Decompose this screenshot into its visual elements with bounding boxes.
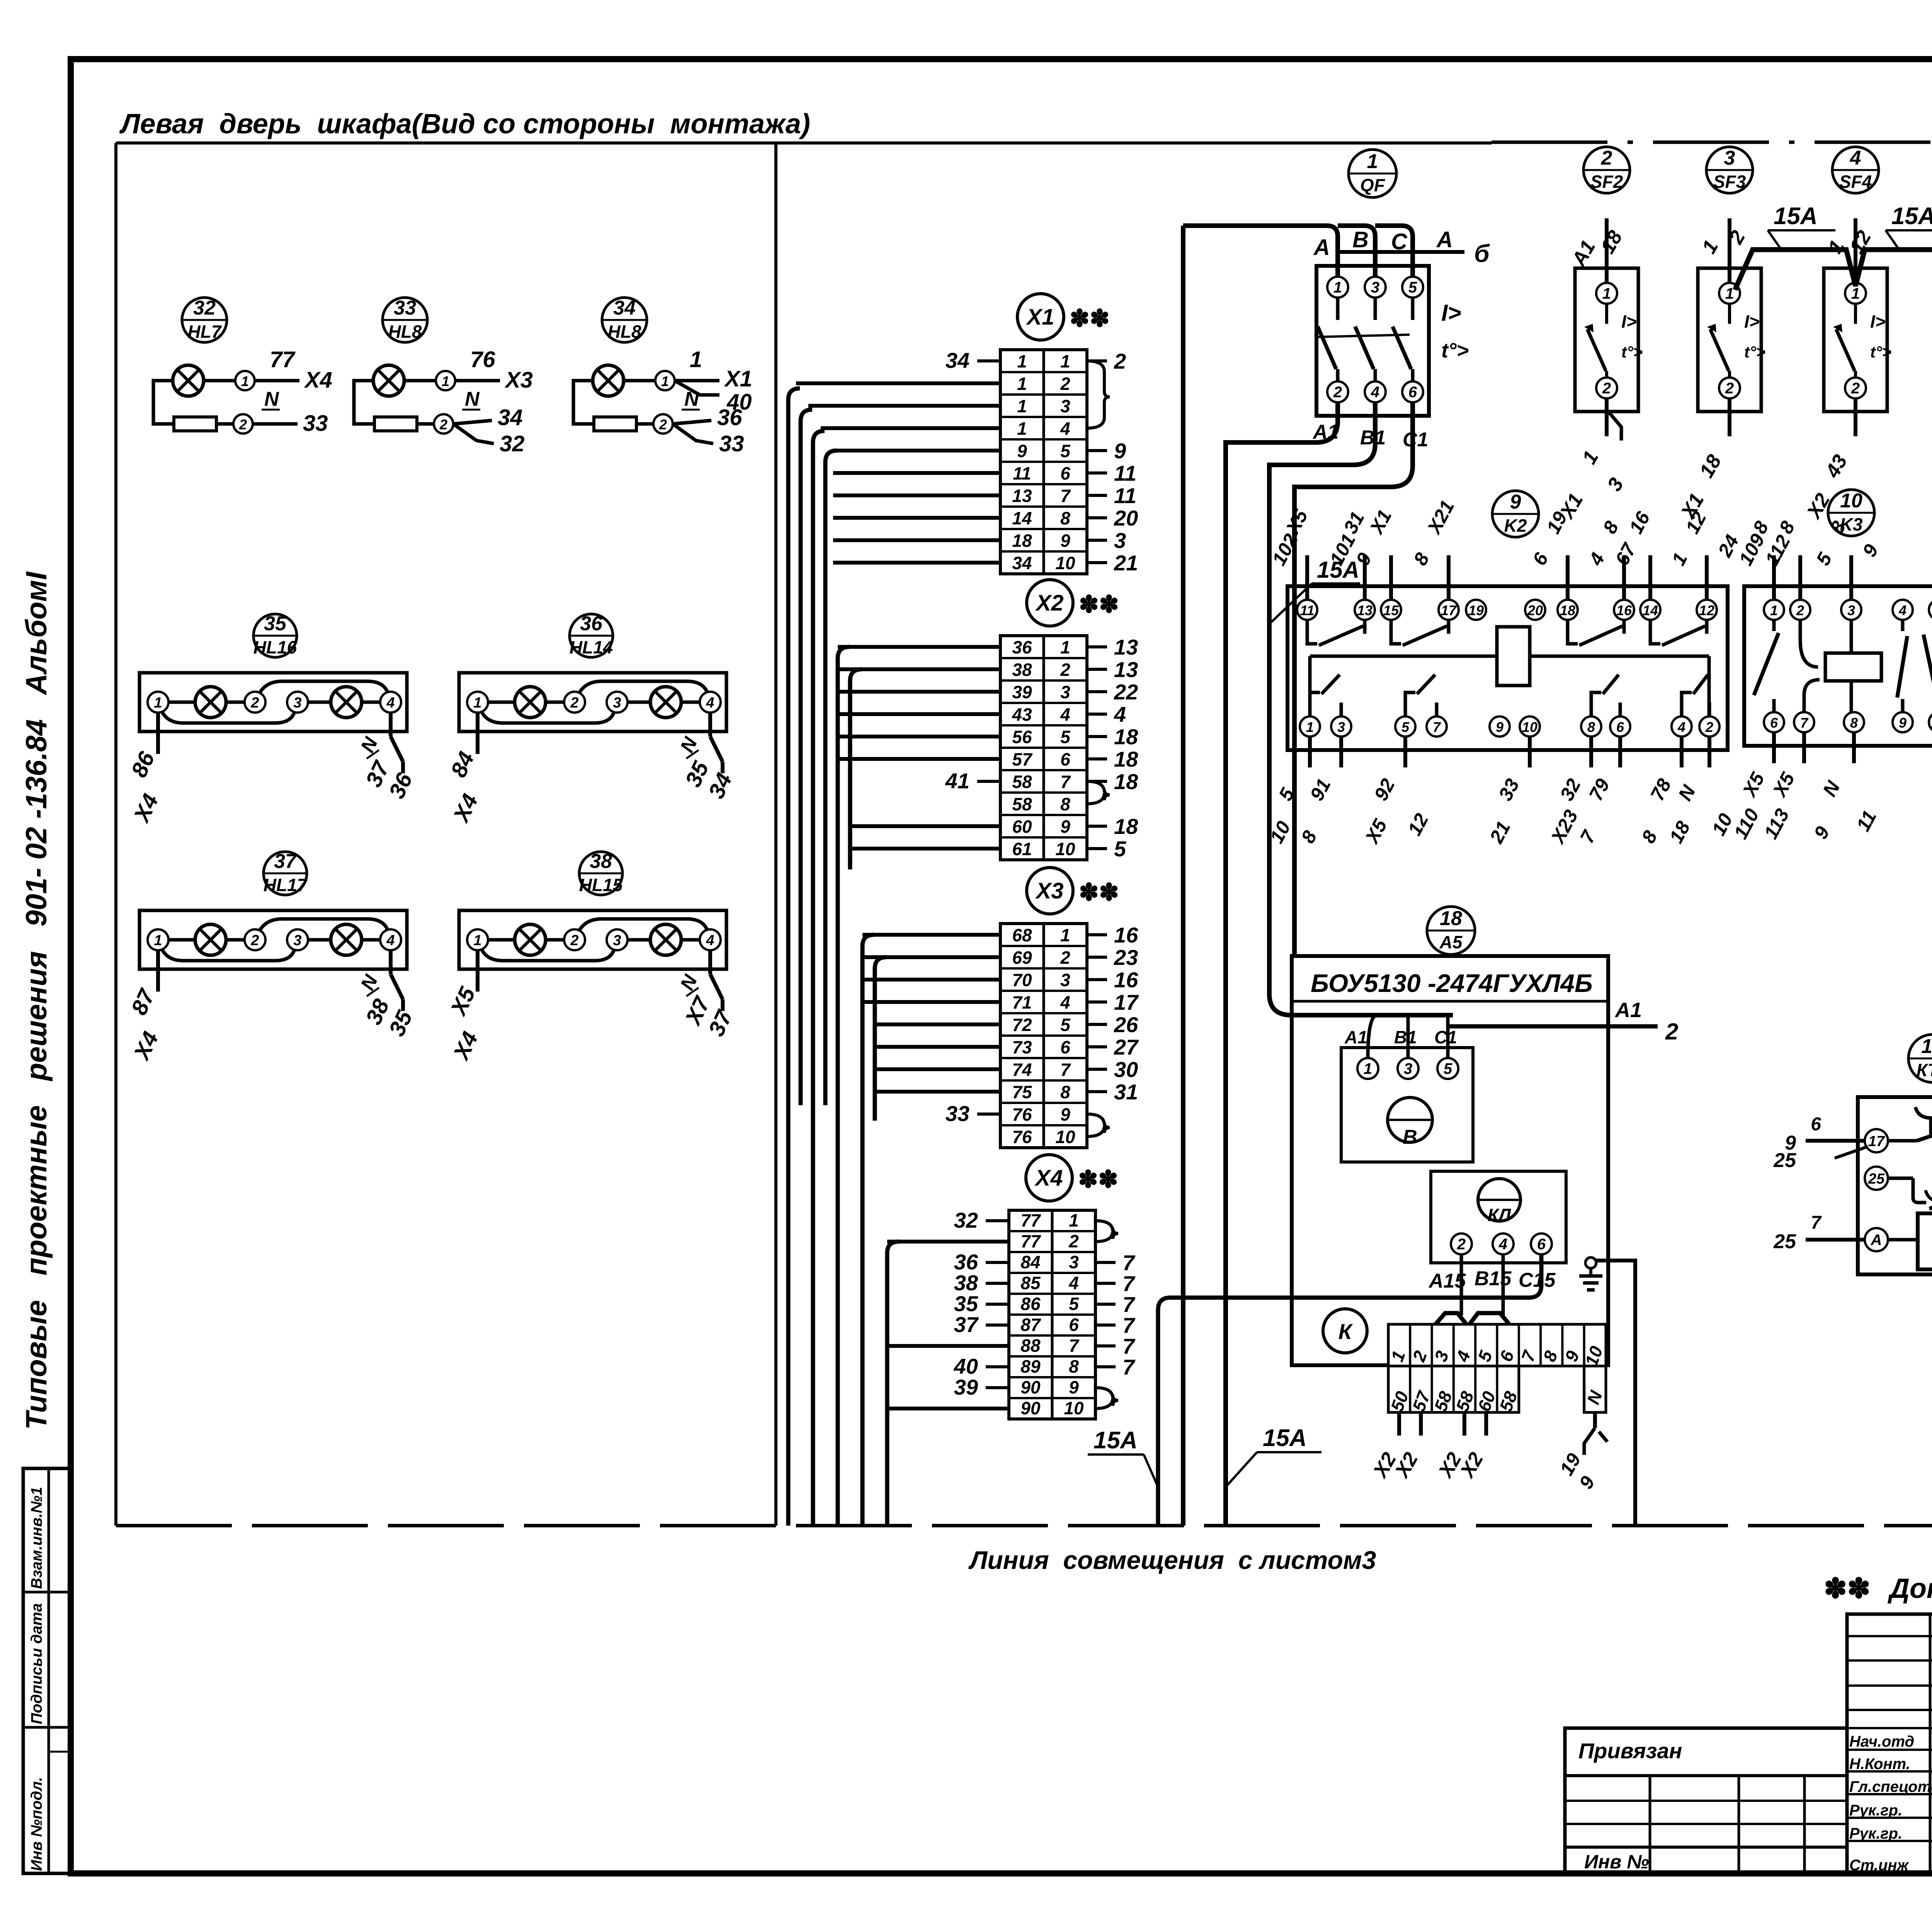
- svg-text:15: 15: [1383, 602, 1399, 618]
- K3 pin 7: [1794, 712, 1814, 732]
- svg-text:SF4: SF4: [1839, 172, 1872, 192]
- SF4 pin 1: [1845, 283, 1866, 304]
- circuit breaker SF4 designator: [1832, 147, 1879, 193]
- svg-text:33: 33: [394, 297, 416, 319]
- svg-text:2: 2: [1060, 660, 1070, 680]
- svg-text:A: A: [1313, 235, 1330, 260]
- resistor of HL8: [594, 417, 636, 431]
- svg-text:2: 2: [570, 932, 578, 949]
- svg-text:33: 33: [303, 411, 328, 436]
- K3 coil feed 3: [1850, 620, 1853, 653]
- terminal 1 of HL8: [404, 379, 436, 383]
- K3 contact 4-9: [1901, 620, 1905, 631]
- K2 pin 5: [1395, 716, 1415, 737]
- svg-text:15А: 15А: [1263, 1425, 1307, 1451]
- K2 coil: [1497, 627, 1530, 686]
- svg-text:X1: X1: [1026, 305, 1054, 330]
- circuit breaker SF4 box: [1824, 268, 1887, 412]
- relay K2 box: [1287, 586, 1728, 750]
- K2 pin 9: [1490, 716, 1510, 737]
- K2 contact: [1682, 692, 1692, 716]
- svg-text:I>: I>: [1870, 311, 1886, 332]
- svg-text:17: 17: [1441, 602, 1457, 618]
- svg-text:22: 22: [1114, 680, 1138, 704]
- svg-text:HL17: HL17: [264, 875, 308, 895]
- QF output wire B1: [1269, 402, 1453, 1015]
- svg-text:4: 4: [386, 695, 395, 711]
- lower cell N: [1584, 1366, 1606, 1412]
- terminal 4: [380, 692, 401, 713]
- svg-text:A1: A1: [1614, 999, 1642, 1022]
- lead from terminal 1: [156, 950, 160, 992]
- circuit breaker SF3 designator: [1706, 147, 1753, 193]
- svg-text:10: 10: [1064, 1398, 1084, 1418]
- A5 inner unit B box: [1341, 1048, 1473, 1162]
- svg-text:38: 38: [590, 850, 612, 873]
- wire C15 to sheet3 feeder: [1158, 1254, 1541, 1526]
- svg-text:7: 7: [1800, 715, 1809, 731]
- K2 contact: [1405, 692, 1415, 716]
- svg-text:1: 1: [473, 932, 481, 949]
- K3 lead pin 8: [1852, 732, 1856, 763]
- svg-text:9: 9: [1060, 1104, 1070, 1125]
- resistor of HL8: [374, 417, 417, 431]
- SF3 bottom lead: [1728, 398, 1731, 436]
- terminal 2 of HL7: [216, 422, 233, 426]
- SF4 top lead: [1854, 218, 1857, 283]
- svg-text:14: 14: [1012, 508, 1032, 528]
- svg-text:11: 11: [1114, 461, 1136, 485]
- svg-text:5: 5: [1114, 837, 1126, 861]
- svg-text:58: 58: [1012, 794, 1032, 814]
- K3 lead pin 7: [1802, 732, 1806, 763]
- svg-text:1: 1: [1017, 396, 1027, 416]
- КТ1 left leads: [1806, 1139, 1865, 1143]
- svg-text:34: 34: [613, 297, 636, 319]
- svg-text:2: 2: [1601, 147, 1612, 169]
- svg-text:32: 32: [954, 1208, 978, 1232]
- K2 pin 17: [1439, 600, 1459, 620]
- svg-text:Инв №подл.: Инв №подл.: [28, 1777, 45, 1871]
- lamp HL8: [373, 365, 404, 396]
- svg-text:8: 8: [1060, 794, 1070, 814]
- svg-text:2: 2: [239, 417, 247, 432]
- svg-text:71: 71: [1012, 992, 1032, 1012]
- K2 lead pin 14: [1648, 555, 1652, 600]
- lead below N cell: [1593, 1412, 1597, 1428]
- svg-text:9: 9: [1060, 531, 1070, 551]
- svg-text:3: 3: [613, 695, 621, 711]
- SF4 pin 2: [1845, 378, 1866, 398]
- svg-text:t°>: t°>: [1870, 343, 1891, 361]
- svg-text:X2: X2: [1035, 590, 1064, 616]
- svg-text:4: 4: [1060, 704, 1070, 725]
- K2 lead pin 3: [1339, 737, 1343, 767]
- svg-text:61: 61: [1012, 839, 1032, 859]
- SF4 contact: [1854, 304, 1857, 324]
- K3 lead pin 6: [1772, 732, 1776, 763]
- svg-text:1: 1: [1851, 285, 1860, 302]
- relay K3 designator: [1828, 490, 1874, 536]
- K2 pin 14: [1640, 600, 1660, 620]
- svg-text:23: 23: [1114, 945, 1138, 970]
- lamp B: [650, 924, 681, 955]
- svg-text:37: 37: [954, 1312, 979, 1337]
- unit A5 box: [1292, 956, 1608, 1365]
- K3 lead pin 1: [1772, 555, 1776, 600]
- svg-text:87: 87: [1020, 1315, 1041, 1335]
- lead from terminal 4: [708, 713, 712, 737]
- K3 pin 10: [1929, 712, 1932, 732]
- svg-text:43: 43: [1012, 704, 1032, 725]
- svg-text:18: 18: [1012, 531, 1032, 551]
- terminal 3: [607, 929, 628, 950]
- A5 inner unit KL box: [1431, 1171, 1566, 1263]
- svg-text:18: 18: [1114, 814, 1138, 839]
- svg-text:Гл.спецотд: Гл.спецотд: [1849, 1778, 1932, 1795]
- K3 contact 1-6: [1772, 620, 1776, 631]
- svg-text:14: 14: [1643, 602, 1658, 618]
- svg-text:16: 16: [1114, 968, 1138, 992]
- K2 lead pin 4: [1680, 737, 1684, 767]
- svg-text:1: 1: [1060, 351, 1070, 371]
- svg-text:HL14: HL14: [570, 637, 613, 657]
- svg-text:Нач.отд: Нач.отд: [1849, 1733, 1914, 1750]
- jumper humps to A15 B15 C15: [1460, 1254, 1463, 1315]
- svg-text:9: 9: [1017, 441, 1027, 461]
- svg-text:1: 1: [690, 347, 702, 372]
- terminal 2 of HL8: [417, 422, 434, 426]
- svg-text:36: 36: [717, 405, 742, 430]
- lamp A: [195, 687, 226, 718]
- terminal 4: [700, 929, 721, 950]
- lamp module HL14 box: [459, 673, 726, 732]
- svg-text:1: 1: [1770, 602, 1778, 618]
- svg-text:84: 84: [1020, 1252, 1040, 1272]
- svg-text:76: 76: [1012, 1104, 1032, 1125]
- svg-text:77: 77: [1020, 1210, 1041, 1230]
- svg-text:85: 85: [1020, 1273, 1041, 1293]
- svg-text:K2: K2: [1504, 515, 1527, 536]
- terminal 4: [700, 692, 721, 713]
- svg-text:18: 18: [1114, 725, 1138, 749]
- svg-text:✽✽: ✽✽: [1078, 1166, 1118, 1193]
- svg-text:N: N: [264, 388, 279, 410]
- wire from terminal 1: [455, 379, 500, 383]
- svg-text:4: 4: [386, 932, 395, 949]
- svg-text:3: 3: [1337, 719, 1345, 735]
- svg-text:2: 2: [1705, 719, 1713, 735]
- svg-text:8: 8: [1060, 1082, 1070, 1102]
- svg-text:3: 3: [293, 695, 301, 711]
- svg-text:1: 1: [473, 695, 481, 711]
- lead from terminal 1: [476, 950, 480, 992]
- svg-text:8: 8: [1060, 508, 1070, 528]
- QF pins 2,4,6: [1327, 381, 1348, 402]
- lead from terminal 4: [708, 950, 712, 974]
- svg-text:72: 72: [1012, 1015, 1032, 1035]
- SF3 top lead: [1728, 218, 1731, 283]
- terminal strip of unit K: [1388, 1324, 1606, 1366]
- meter B: [1388, 1097, 1432, 1142]
- K2 pin 10: [1520, 716, 1540, 737]
- circuit breaker QF box: [1316, 266, 1429, 416]
- svg-text:10: 10: [1055, 553, 1075, 573]
- wire lamp to resistor: [573, 381, 594, 424]
- svg-text:1: 1: [154, 695, 162, 711]
- svg-text:4: 4: [706, 695, 714, 711]
- svg-text:Н.Конт.: Н.Конт.: [1849, 1756, 1910, 1773]
- svg-text:18: 18: [1114, 769, 1138, 794]
- svg-text:60: 60: [1012, 817, 1032, 837]
- svg-text:10: 10: [1055, 839, 1075, 859]
- K3 pin 8: [1844, 712, 1864, 732]
- lead from terminal 1: [156, 713, 160, 754]
- K2 contact: [1568, 620, 1578, 644]
- time relay КТ1 designator: [1908, 1034, 1932, 1082]
- svg-text:68: 68: [1012, 925, 1032, 945]
- svg-text:КЛ: КЛ: [1488, 1205, 1511, 1225]
- svg-text:21: 21: [1114, 551, 1138, 575]
- svg-text:3: 3: [613, 932, 621, 949]
- K3 pin 4: [1893, 600, 1913, 620]
- K3 pin 3: [1841, 600, 1861, 620]
- svg-text:9: 9: [1510, 491, 1521, 513]
- svg-text:В15: В15: [1475, 1267, 1512, 1290]
- svg-text:90: 90: [1020, 1398, 1041, 1418]
- lamp B: [650, 687, 681, 718]
- svg-text:HL16: HL16: [253, 637, 297, 657]
- svg-text:3: 3: [1114, 528, 1126, 553]
- title block: [1565, 1728, 1847, 1873]
- svg-text:34: 34: [946, 348, 969, 373]
- QF contacts: [1336, 298, 1340, 320]
- svg-text:B1: B1: [1360, 427, 1386, 449]
- svg-text:2: 2: [1796, 602, 1804, 618]
- svg-text:A1: A1: [1312, 421, 1338, 443]
- svg-text:3: 3: [1060, 396, 1070, 416]
- wire from terminal 1: [675, 379, 719, 383]
- svg-text:8: 8: [1069, 1356, 1079, 1376]
- K2 internal bar: [1310, 655, 1497, 658]
- K2 pin 15: [1381, 600, 1401, 620]
- svg-text:SF3: SF3: [1713, 172, 1746, 192]
- terminal 1 of HL8: [624, 379, 655, 383]
- K2 pin 12: [1697, 600, 1717, 620]
- lead from terminal 4: [389, 713, 393, 737]
- svg-text:Рук.гр.: Рук.гр.: [1849, 1802, 1902, 1819]
- svg-text:36: 36: [1012, 637, 1032, 657]
- svg-text:Рук.гр.: Рук.гр.: [1849, 1825, 1902, 1842]
- svg-text:88: 88: [1020, 1335, 1041, 1356]
- K2 pin 19: [1466, 600, 1486, 620]
- svg-text:31: 31: [1114, 1080, 1138, 1104]
- K2 pin 11: [1297, 600, 1317, 620]
- svg-text:41: 41: [945, 769, 969, 793]
- terminal 2: [245, 929, 265, 950]
- terminal 3: [287, 692, 308, 713]
- svg-text:75: 75: [1012, 1082, 1032, 1102]
- phase A riser from sheet 3: [1181, 226, 1185, 1526]
- svg-text:35: 35: [264, 612, 287, 635]
- svg-text:4: 4: [706, 932, 714, 949]
- svg-text:В: В: [1403, 1126, 1417, 1148]
- lamp module HL15 designator: [579, 852, 622, 895]
- QF pins 1,3,5: [1327, 277, 1348, 298]
- svg-text:18: 18: [1440, 907, 1462, 930]
- svg-text:4: 4: [1498, 1236, 1507, 1253]
- svg-text:5: 5: [1401, 719, 1410, 735]
- svg-text:Ст.инж: Ст.инж: [1849, 1857, 1910, 1874]
- wire lamp to resistor: [354, 381, 374, 424]
- svg-text:X4: X4: [1034, 1165, 1063, 1191]
- svg-text:7: 7: [1122, 1355, 1136, 1379]
- svg-text:57: 57: [1012, 749, 1033, 769]
- svg-text:16: 16: [1114, 923, 1138, 947]
- circuit breaker SF2 box: [1575, 268, 1638, 412]
- terminal 2: [245, 692, 265, 713]
- svg-text:QF: QF: [1360, 175, 1386, 195]
- svg-text:6: 6: [1616, 719, 1624, 735]
- svg-text:4: 4: [1898, 602, 1906, 618]
- svg-text:5: 5: [1408, 279, 1417, 296]
- svg-text:2: 2: [1457, 1236, 1466, 1253]
- svg-text:X3: X3: [1035, 878, 1064, 903]
- svg-text:10: 10: [1840, 490, 1862, 512]
- svg-text:4: 4: [1371, 384, 1379, 401]
- SF2 bottom lead: [1605, 398, 1609, 436]
- svg-text:69: 69: [1012, 948, 1032, 968]
- svg-text:5: 5: [1069, 1294, 1079, 1314]
- svg-text:4: 4: [1068, 1273, 1079, 1293]
- svg-text:30: 30: [1114, 1057, 1138, 1082]
- K2 contact: [1310, 692, 1320, 716]
- terminal block X1 designator: [1017, 294, 1064, 340]
- lamp A: [195, 924, 226, 955]
- wire from terminal 1: [255, 379, 299, 383]
- svg-text:X1: X1: [724, 366, 752, 391]
- svg-text:б: б: [1474, 240, 1490, 267]
- svg-text:9: 9: [1114, 439, 1126, 463]
- K3 pin 6: [1764, 712, 1784, 732]
- svg-text:A: A: [1436, 227, 1453, 252]
- svg-text:1: 1: [1306, 719, 1314, 735]
- svg-text:27: 27: [1114, 1035, 1139, 1059]
- svg-text:2: 2: [1068, 1231, 1079, 1251]
- svg-text:25: 25: [1773, 1230, 1796, 1253]
- K2 lead pin 6: [1618, 737, 1622, 767]
- svg-text:18: 18: [1114, 747, 1138, 771]
- svg-text:77: 77: [1020, 1231, 1041, 1251]
- svg-text:Линия совмещения с листом3: Линия совмещения с листом3: [968, 1546, 1376, 1574]
- svg-text:1: 1: [1333, 279, 1342, 296]
- K2 pin 16: [1614, 600, 1634, 620]
- svg-text:5: 5: [1060, 727, 1071, 747]
- wire lamp to resistor: [153, 381, 174, 424]
- K3 coil: [1825, 653, 1881, 681]
- relay K3 box: [1744, 586, 1932, 746]
- svg-text:4: 4: [1060, 419, 1070, 439]
- svg-text:37: 37: [274, 850, 297, 873]
- svg-text:2: 2: [1725, 380, 1734, 397]
- svg-text:6: 6: [1060, 463, 1070, 483]
- svg-text:7: 7: [1433, 719, 1441, 735]
- left margin stamp boxes: [23, 1468, 71, 1873]
- lamp A: [515, 924, 546, 955]
- lamp HL7: [173, 365, 204, 396]
- svg-text:2: 2: [1851, 380, 1860, 397]
- terminal 1: [467, 929, 488, 950]
- svg-text:✽✽: ✽✽: [1079, 591, 1119, 618]
- svg-text:6: 6: [1811, 1114, 1821, 1135]
- svg-text:12: 12: [1699, 602, 1714, 618]
- K3 pin 1: [1764, 600, 1784, 620]
- K2 lead pin 13: [1363, 555, 1367, 600]
- match line to sheet 3 (bottom): [116, 1524, 1932, 1528]
- phase A feed wire: [1183, 226, 1338, 277]
- svg-text:I>: I>: [1744, 311, 1760, 332]
- svg-text:13: 13: [1012, 486, 1032, 506]
- svg-text:✽✽: ✽✽: [1070, 305, 1110, 332]
- left door box: [116, 141, 1492, 145]
- terminal 4: [380, 929, 401, 950]
- svg-text:Привязан: Привязан: [1578, 1739, 1682, 1763]
- relay K2 designator: [1492, 491, 1539, 537]
- svg-text:39: 39: [954, 1375, 978, 1399]
- svg-text:38: 38: [1012, 660, 1032, 680]
- svg-text:1: 1: [1725, 285, 1734, 302]
- wire ground to bottom: [1596, 1261, 1635, 1526]
- A1 output wire: [1448, 1024, 1658, 1029]
- svg-text:1: 1: [1060, 637, 1070, 657]
- svg-text:2: 2: [439, 417, 447, 432]
- svg-text:4: 4: [1850, 147, 1861, 169]
- svg-text:7: 7: [1060, 486, 1071, 506]
- svg-text:HL15: HL15: [579, 875, 623, 895]
- svg-text:I>: I>: [1621, 311, 1637, 332]
- svg-text:7: 7: [1060, 772, 1071, 792]
- K3 pin 5: [1929, 600, 1932, 620]
- ground symbol: [1585, 1257, 1596, 1268]
- terminal 2 of HL8: [636, 422, 653, 426]
- svg-text:t°>: t°>: [1621, 343, 1643, 361]
- svg-text:3: 3: [1724, 147, 1735, 169]
- svg-text:6: 6: [1069, 1315, 1079, 1335]
- svg-text:A1: A1: [1344, 1027, 1367, 1047]
- K2 lead pin 1: [1308, 737, 1312, 767]
- K2 pin 1: [1300, 716, 1320, 737]
- svg-text:13: 13: [1357, 602, 1372, 618]
- svg-text:33: 33: [719, 431, 744, 456]
- K2 pin 8: [1581, 716, 1601, 737]
- svg-text:B: B: [1352, 227, 1369, 252]
- 15A jumper bus SF3-SF4-SF5: [1735, 250, 1932, 290]
- svg-text:HL7: HL7: [188, 322, 222, 342]
- КТ1 contact 25-26: [1865, 1167, 1888, 1190]
- svg-text:34: 34: [1012, 553, 1032, 573]
- svg-text:9: 9: [1060, 817, 1070, 837]
- svg-text:20: 20: [1114, 506, 1138, 530]
- svg-text:2: 2: [250, 695, 259, 711]
- svg-text:N: N: [465, 388, 480, 410]
- svg-text:6: 6: [1770, 715, 1778, 731]
- pins 1,3,5: [1357, 1058, 1378, 1079]
- svg-text:Типовые проектные решения: Типовые проектные решения 901- 02 -136.8…: [20, 571, 53, 1430]
- svg-text:74: 74: [1012, 1060, 1032, 1080]
- svg-text:✽✽: ✽✽: [1824, 1573, 1871, 1604]
- K2 lead pin 16: [1622, 555, 1626, 600]
- lamp module HL15 box: [459, 910, 726, 969]
